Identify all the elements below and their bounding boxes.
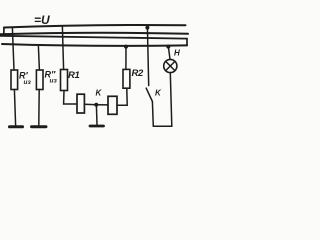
bus A left end closure (3, 28, 5, 34)
wire: coil to midpoint junction (84, 103, 96, 105)
wire: R2 up to bus B (125, 46, 127, 69)
wire: switch down to lamp return (151, 102, 154, 127)
bus A top line (=U positive busbar, top edge) (4, 25, 186, 27)
svg-text:R2: R2 (132, 68, 144, 79)
node: lamp to bus B junction (166, 45, 170, 49)
wire: R'из branch from bus A down (12, 28, 14, 70)
resistor R″из (36, 70, 43, 90)
resistor R2 (123, 69, 130, 88)
wire: lamp down then left to switch (153, 73, 172, 127)
wire: bus B down to lamp (168, 47, 170, 60)
wire: midpoint to ground (95, 105, 98, 125)
bus B bottom line (2, 44, 187, 46)
switch contact K blade (146, 88, 152, 101)
lamp H cross stroke 2 (166, 61, 175, 70)
resistor R1 (61, 70, 68, 91)
bus B top line (=U negative busbar, top edge) (0, 36, 187, 39)
node: midpoint junction (94, 103, 98, 107)
bus A bottom line (0, 33, 188, 35)
node: R2 to bus B junction (124, 45, 128, 49)
wire: R'из to ground (14, 90, 15, 126)
wire: R1 branch from bus A down (62, 27, 63, 70)
ground (under R'из) (10, 125, 23, 128)
ground (midpoint) (90, 125, 104, 128)
relay coil K (right winding) (108, 96, 117, 114)
svg-text:K: K (155, 89, 162, 98)
resistor R'из (11, 70, 18, 90)
svg-text:из: из (24, 79, 32, 86)
wire: R1 down then right to relay coil (64, 91, 77, 105)
svg-text:H: H (174, 49, 180, 58)
svg-text:=U: =U (34, 13, 50, 27)
lamp H cross stroke 1 (166, 61, 175, 70)
wire: midpoint to right winding (96, 104, 108, 106)
ground (under R″из) (32, 125, 47, 128)
lamp H (circle) (164, 59, 177, 72)
svg-text:R1: R1 (68, 70, 79, 81)
wire: R″из to ground (38, 90, 40, 126)
svg-text:из: из (50, 78, 58, 85)
wire: R″из branch from bus B down (38, 46, 39, 70)
wire: right winding right then up to R2 (117, 88, 127, 105)
node: switch to bus A junction (145, 26, 149, 30)
relay coil K (left winding) (77, 94, 84, 113)
svg-text:K: K (96, 89, 103, 98)
bus B right end closure (186, 39, 188, 46)
wire: bus A down to switch terminal (147, 27, 148, 86)
